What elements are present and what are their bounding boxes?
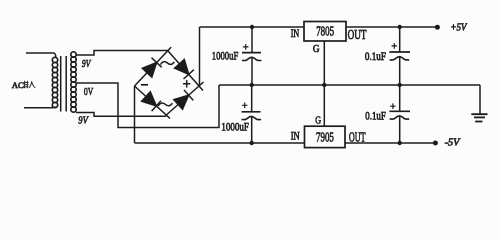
- wire U1 OUT to +5V terminal: [346, 26, 437, 28]
- diode D4 (left to bottom): [142, 92, 161, 111]
- regulator U2 7905 box: [305, 126, 346, 147]
- capacitor C1 curved plate: [242, 57, 262, 60]
- wire U1 G to mid rail: [323, 41, 325, 85]
- svg-text:OUT: OUT: [349, 129, 366, 144]
- capacitor C4 plate: [389, 110, 410, 112]
- junction dot C3 bottom: [250, 141, 254, 145]
- bridge plus mark: [183, 80, 190, 87]
- junction dot C2 top: [398, 25, 402, 29]
- diode D3 (left to top): [142, 58, 161, 77]
- wire mid rail to ground: [479, 85, 481, 114]
- bridge edge bottom-right: [166, 82, 203, 115]
- bridge edge top-left: [135, 47, 172, 86]
- capacitor C3 1000uF lead top: [251, 85, 253, 112]
- capacitor C2 plate: [389, 51, 410, 53]
- svg-text:G: G: [315, 115, 321, 127]
- svg-text:+5V: +5V: [450, 23, 467, 34]
- bridge AC tilde bottom: [158, 103, 172, 106]
- capacitor C1 lead bottom: [251, 58, 253, 85]
- capacitor C3 plate: [242, 111, 261, 113]
- svg-text:0.1uF: 0.1uF: [365, 51, 386, 63]
- svg-text:9V: 9V: [82, 58, 92, 70]
- svg-text:0V: 0V: [84, 86, 93, 98]
- terminal dot +5V: [435, 25, 440, 30]
- capacitor C1 plus: [243, 44, 249, 50]
- transformer T1 secondary winding: [71, 52, 76, 112]
- wire secondary 9V bottom tap to bridge AC bottom: [76, 113, 166, 117]
- capacitor C1 plate: [242, 52, 261, 54]
- svg-text:IN: IN: [291, 128, 300, 142]
- junction dot G mid: [322, 83, 326, 87]
- svg-text:1000uF: 1000uF: [221, 120, 249, 134]
- capacitor C1 1000uF lead top: [251, 27, 253, 53]
- capacitor C3 curved plate: [242, 116, 262, 119]
- capacitor C4 plus: [390, 103, 396, 109]
- junction dot C1/C3 mid: [250, 83, 254, 87]
- bridge AC tilde top: [161, 62, 175, 65]
- bridge edge bottom-left: [135, 86, 171, 118]
- svg-text:7805: 7805: [316, 24, 334, 39]
- svg-text:1000uF: 1000uF: [212, 49, 239, 63]
- transformer T1 core line left: [60, 56, 62, 112]
- wire bridge + output up to top rail: [199, 27, 201, 86]
- wire bottom rail to 7905 IN: [135, 142, 305, 144]
- capacitor C4 curved plate: [390, 116, 410, 119]
- wire secondary 0V center tap to mid rail: [76, 83, 219, 128]
- junction dot C1 top: [250, 25, 254, 29]
- label AC input (AC输入): [12, 80, 35, 90]
- wire top rail to 7805 IN: [200, 26, 305, 28]
- capacitor C4 0.1uF lead top: [399, 85, 401, 111]
- transformer T1 primary bottom lead: [24, 107, 56, 108]
- wire secondary 9V top tap to bridge AC top: [76, 51, 168, 56]
- wire U2 G to mid rail: [323, 85, 325, 126]
- capacitor C2 plus: [392, 43, 398, 49]
- junction dot C4 bottom: [398, 141, 402, 145]
- junction dot C2/C4 mid: [398, 83, 402, 87]
- capacitor C2 lead bottom: [399, 57, 401, 85]
- diode D2 (bottom to right): [174, 90, 194, 109]
- regulator U1 7805 box: [304, 22, 346, 42]
- bridge minus mark: [141, 84, 148, 86]
- bridge edge top-right: [168, 51, 203, 91]
- capacitor C3 lead bottom: [251, 117, 253, 143]
- capacitor C4 lead bottom: [399, 116, 401, 143]
- svg-text:-5V: -5V: [445, 137, 461, 148]
- svg-text:IN: IN: [291, 26, 300, 40]
- wire U2 OUT to -5V terminal: [345, 142, 435, 144]
- svg-text:0.1uF: 0.1uF: [365, 111, 386, 123]
- capacitor C3 plus: [242, 103, 248, 109]
- transformer T1 core line right: [65, 56, 67, 112]
- svg-text:OUT: OUT: [348, 27, 367, 42]
- transformer T1 primary winding: [52, 57, 57, 107]
- mid 0V rail: [219, 84, 480, 86]
- terminal dot -5V: [433, 141, 438, 146]
- transformer T1 primary top lead: [26, 53, 56, 58]
- svg-text:G: G: [313, 44, 320, 55]
- svg-text:AC: AC: [12, 80, 24, 90]
- svg-text:9V: 9V: [78, 114, 88, 126]
- capacitor C2 0.1uF lead top: [399, 27, 401, 52]
- capacitor C2 curved plate: [390, 57, 410, 60]
- wire bridge - output down to bottom rail: [134, 86, 136, 143]
- svg-text:7905: 7905: [316, 129, 334, 144]
- ground symbol: [471, 114, 487, 121]
- diode D1 (top to right): [175, 60, 194, 80]
